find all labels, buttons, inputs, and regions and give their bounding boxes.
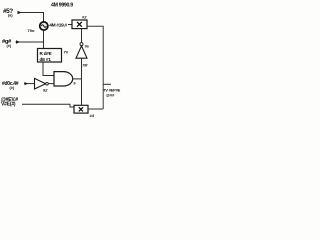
AND gate G1 xyxy=(54,72,73,86)
X symbol in X2 xyxy=(79,107,83,111)
wire X2 right to bus xyxy=(88,108,103,110)
svg-text:7#: 7# xyxy=(64,50,69,55)
arrowhead on VIDEO wire xyxy=(25,82,29,85)
svg-text:R d#E: R d#E xyxy=(40,51,52,56)
wire Q1 bubble up to X1 bottom xyxy=(81,29,83,43)
svg-text:V#E(#): V#E(#) xyxy=(1,102,16,108)
bubble of Q1 xyxy=(80,43,83,46)
svg-text:@##: @## xyxy=(106,93,115,98)
wire X1 output to right bus xyxy=(87,26,103,109)
svg-text:4M #19.#: 4M #19.# xyxy=(49,22,67,28)
arrowhead on AGC wire xyxy=(16,40,20,43)
svg-text:#4: #4 xyxy=(90,113,95,118)
wire VIDEO to inverter B xyxy=(24,83,34,85)
wire Q2 to AND lower input xyxy=(48,83,54,85)
bubble of Q2 xyxy=(46,82,49,85)
svg-text:(a): (a) xyxy=(8,13,13,17)
node label AGC (mid-left input) xyxy=(2,39,12,48)
sine symbol inside mixer xyxy=(41,25,46,28)
wire U2 bottom to AND gate upper input xyxy=(43,62,54,76)
mixer U1 (circle) xyxy=(40,22,48,30)
wire mixer to doubler box xyxy=(68,24,72,26)
svg-text:#a: #a xyxy=(85,44,89,48)
svg-text:9: 9 xyxy=(74,82,76,86)
multiplier X1 (top box) xyxy=(72,20,87,29)
node label bottom-left input xyxy=(1,97,18,108)
wire bottom-left input to X2 box xyxy=(22,104,74,107)
node label VIDEO (lower-left input) xyxy=(2,81,19,90)
label TV SIGNAL OUT xyxy=(103,87,121,97)
node label IN1 (top-left input) xyxy=(3,8,13,18)
detector box U2 xyxy=(38,49,62,63)
multiplier X2 (bottom box) xyxy=(74,105,88,113)
arrowhead on IN1 wire xyxy=(18,11,22,14)
svg-text:70o: 70o xyxy=(28,28,35,33)
svg-text:(#): (#) xyxy=(7,44,12,48)
wire from IN1 to mixer top xyxy=(18,13,44,22)
svg-text:dE #1: dE #1 xyxy=(40,57,52,62)
vertical wire G1/inverter bus xyxy=(81,58,83,105)
inverter Q1 (pointing up into X1) xyxy=(76,46,87,58)
svg-text:4M 9990.9: 4M 9990.9 xyxy=(51,3,73,9)
wire mixer bottom to detector box xyxy=(43,30,45,48)
inverter Q2 (buffer with bubble, pointing right) xyxy=(35,78,46,89)
wire from AGC to vertical xyxy=(16,41,44,43)
svg-text:#2: #2 xyxy=(82,15,87,20)
TV output tap on right bus xyxy=(103,83,111,85)
X symbol in X1 xyxy=(77,22,82,27)
wire G1 output to vertical bus xyxy=(73,78,82,80)
svg-text:(#): (#) xyxy=(10,86,15,90)
svg-text:92: 92 xyxy=(43,88,48,93)
